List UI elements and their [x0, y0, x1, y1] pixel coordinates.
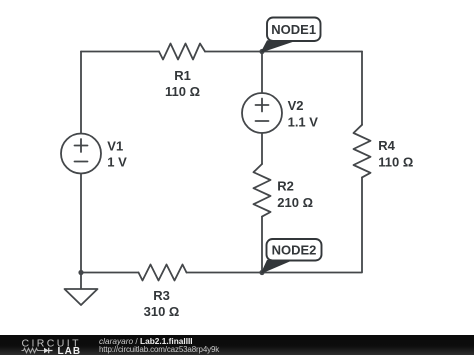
voltage source V2 [242, 93, 282, 133]
voltage source V1 [61, 134, 101, 174]
NODE1 callout box [267, 18, 321, 42]
NODE1 callout pointer [262, 41, 293, 52]
svg-text:R4: R4 [378, 138, 395, 153]
svg-text:310 Ω: 310 Ω [144, 304, 180, 319]
wire R3 to node2 [187, 272, 263, 274]
svg-text:1.1 V: 1.1 V [288, 115, 319, 130]
wire node1 down to V2 [261, 52, 263, 94]
wire V2 to R2 [261, 133, 263, 164]
NODE2 callout pointer [262, 261, 290, 273]
wire R2 to node2 [261, 217, 263, 273]
logo diode symbol [44, 348, 49, 354]
node junction dot NODE1 [259, 49, 264, 54]
V1 plus sign [75, 139, 88, 152]
svg-text:110 Ω: 110 Ω [165, 84, 200, 99]
wire left side: corner down to V1 [80, 52, 82, 134]
attribution line 2 [99, 346, 219, 354]
V2 plus sign [256, 99, 269, 112]
svg-text:V2: V2 [288, 98, 304, 113]
svg-text:NODE1: NODE1 [271, 22, 316, 37]
wire R1 to node1 [205, 51, 262, 53]
svg-text:V1: V1 [107, 138, 123, 153]
svg-text:1 V: 1 V [107, 155, 127, 170]
logo resistor squiggle [22, 348, 45, 352]
wire node1 to top-right corner [262, 51, 362, 53]
footer attribution bar [0, 335, 474, 355]
wire bottom-left junction to R3 [81, 272, 139, 274]
svg-text:R3: R3 [153, 288, 170, 303]
node junction dot bottom-left [78, 270, 83, 275]
CircuitLab logo [0, 335, 90, 355]
resistor R2 [254, 164, 271, 217]
wire right side down to R4 [361, 52, 363, 125]
svg-text:NODE2: NODE2 [272, 243, 317, 258]
svg-text:R2: R2 [277, 179, 294, 194]
ground symbol [65, 289, 98, 305]
node junction dot NODE2 [259, 270, 264, 275]
resistor R3 [139, 265, 187, 281]
svg-text:210 Ω: 210 Ω [277, 195, 313, 210]
svg-text:110 Ω: 110 Ω [378, 154, 413, 169]
wire V1 to bottom-left junction [80, 174, 82, 273]
ground stub wire [80, 273, 82, 290]
wire top-left horizontal (left corner to R1) [81, 51, 159, 53]
attribution line 1 [99, 337, 193, 345]
V1 minus sign [75, 161, 88, 163]
resistor R4 [354, 125, 371, 178]
svg-text:LAB: LAB [58, 346, 82, 355]
wire R4 to bottom-right corner and left to node2 [262, 177, 362, 272]
svg-text:R1: R1 [174, 68, 191, 83]
NODE2 callout box [267, 239, 322, 261]
resistor R1 [159, 44, 205, 60]
V2 minus sign [256, 120, 269, 122]
